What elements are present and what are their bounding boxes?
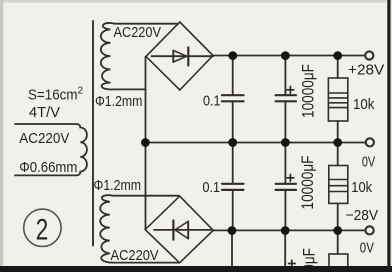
- diode inside D2: [154, 220, 211, 239]
- svg-text:10000μF: 10000μF: [298, 156, 317, 210]
- resistor R3 partial: [329, 254, 348, 268]
- resistor R2 10k: [329, 166, 348, 204]
- wire column row4 left: [231, 230, 233, 267]
- svg-text:Φ0.66mm: Φ0.66mm: [19, 159, 77, 176]
- wire column C2: [284, 56, 286, 96]
- figure number circled 2: [24, 209, 61, 246]
- wire bus +28V: [212, 55, 366, 57]
- capacitor C4 10000uF: [276, 184, 296, 190]
- svg-text:10k: 10k: [351, 179, 372, 196]
- terminal +28V: [365, 51, 373, 59]
- svg-text:AC220V: AC220V: [19, 130, 69, 147]
- svg-text:Φ1.2mm: Φ1.2mm: [95, 94, 142, 110]
- resistor R1 10k: [328, 78, 347, 121]
- bridge rectifier D2: [145, 196, 213, 263]
- svg-text:2: 2: [36, 214, 49, 247]
- svg-text:0V: 0V: [362, 153, 375, 170]
- wire bus 0V middle: [146, 142, 366, 144]
- svg-text:Φ1.2mm: Φ1.2mm: [94, 178, 142, 194]
- plus sign C4: [286, 174, 294, 182]
- svg-text:−28V: −28V: [346, 207, 379, 224]
- svg-text:AC220V: AC220V: [111, 247, 159, 264]
- primary winding: [15, 124, 87, 175]
- wire column C1: [232, 56, 234, 96]
- svg-text:+28V: +28V: [348, 62, 384, 79]
- svg-text:4T/V: 4T/V: [29, 104, 60, 121]
- wire column row4 right: [337, 230, 339, 254]
- svg-text:0V: 0V: [360, 240, 374, 257]
- wire column R2: [337, 143, 339, 166]
- wire column R1: [337, 56, 339, 79]
- diode inside D1: [152, 47, 214, 65]
- svg-text:0.1: 0.1: [203, 92, 221, 109]
- wire column C3: [232, 143, 234, 184]
- terminal 0V upper: [366, 138, 374, 146]
- wire common vertical: [145, 57, 147, 230]
- svg-text:S=16cm2: S=16cm2: [28, 86, 84, 104]
- svg-text:0.1: 0.1: [203, 179, 221, 196]
- capacitor C3 0.1: [222, 184, 244, 190]
- wire column row4 mid: [284, 230, 286, 267]
- secondary winding W2: [100, 195, 179, 263]
- capacitor C2 10000uF: [276, 95, 296, 101]
- wire bus -28V: [213, 229, 366, 231]
- transformer core: [92, 21, 94, 246]
- bridge rectifier D1: [146, 22, 213, 90]
- svg-text:10k: 10k: [353, 96, 375, 113]
- plus sign row4 cap: [288, 260, 296, 268]
- plus sign C2: [286, 86, 294, 94]
- terminal -28V: [366, 226, 374, 234]
- wire column C4: [284, 143, 286, 184]
- secondary winding W1: [101, 23, 179, 90]
- svg-text:10000μF: 10000μF: [299, 64, 318, 118]
- svg-text:AC220V: AC220V: [114, 24, 162, 41]
- capacitor C1 0.1: [222, 95, 244, 101]
